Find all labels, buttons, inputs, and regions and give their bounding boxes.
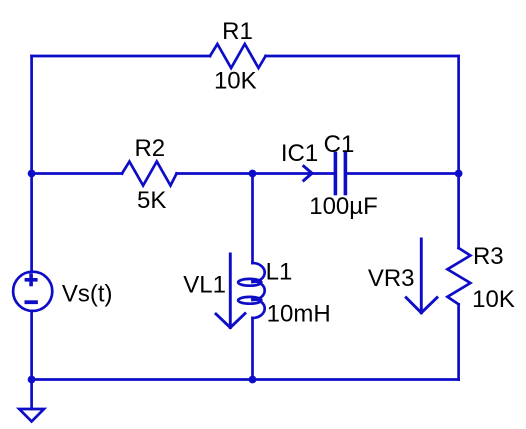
- svg-text:IC1: IC1: [281, 140, 318, 167]
- svg-text:10mH: 10mH: [267, 300, 331, 327]
- wire inductor branch lower: [251, 318, 254, 380]
- svg-text:100µF: 100µF: [309, 193, 378, 220]
- ground: [19, 409, 44, 422]
- svg-text:Vs(t): Vs(t): [62, 281, 113, 308]
- resistor R3: [447, 248, 470, 304]
- wire middle horizontal R2 to capacitor C1: [177, 172, 334, 175]
- wire middle horizontal capacitor C1 to right rail: [347, 172, 459, 175]
- wire bottom rail: [32, 378, 459, 381]
- current arrow IC1 chevron: [304, 166, 312, 180]
- wire top horizontal left of R1: [32, 55, 210, 58]
- svg-text:R2: R2: [134, 135, 165, 162]
- inductor L1: [238, 263, 265, 318]
- voltage source Vs(t) circle: [13, 272, 52, 311]
- svg-text:R1: R1: [222, 18, 253, 45]
- wire left rail lower (source bottom to ground rail): [30, 311, 33, 380]
- wire inductor branch upper: [251, 174, 254, 264]
- svg-text:10K: 10K: [214, 68, 257, 95]
- svg-text:VR3: VR3: [368, 265, 415, 292]
- node inductor bottom junction: [249, 376, 257, 384]
- voltage source plus sign: [26, 275, 35, 284]
- voltage arrow VL1: [216, 254, 245, 328]
- svg-text:5K: 5K: [137, 187, 166, 214]
- node middle junction (R2/C1/L1): [249, 170, 257, 178]
- svg-text:R3: R3: [473, 243, 504, 270]
- node ground junction: [28, 376, 36, 384]
- svg-text:L1: L1: [266, 259, 293, 286]
- wire right rail lower (R3 to bottom): [457, 304, 460, 379]
- capacitor C1 plates: [335, 154, 345, 194]
- wire top horizontal right of R1: [266, 55, 459, 58]
- wire middle horizontal left of R2: [32, 172, 122, 175]
- svg-text:VL1: VL1: [183, 272, 226, 299]
- wire right rail upper (to R3): [457, 56, 460, 248]
- voltage source minus sign: [26, 300, 36, 304]
- node left-middle junction: [28, 170, 36, 178]
- svg-text:C1: C1: [324, 131, 355, 158]
- wire top-left vertical (left rail): [30, 56, 33, 272]
- node right-middle junction: [455, 170, 463, 178]
- resistor R2: [122, 162, 177, 186]
- svg-text:10K: 10K: [472, 286, 515, 313]
- wire ground stub: [30, 380, 33, 410]
- voltage arrow VR3: [406, 239, 437, 313]
- resistor R1: [210, 44, 266, 68]
